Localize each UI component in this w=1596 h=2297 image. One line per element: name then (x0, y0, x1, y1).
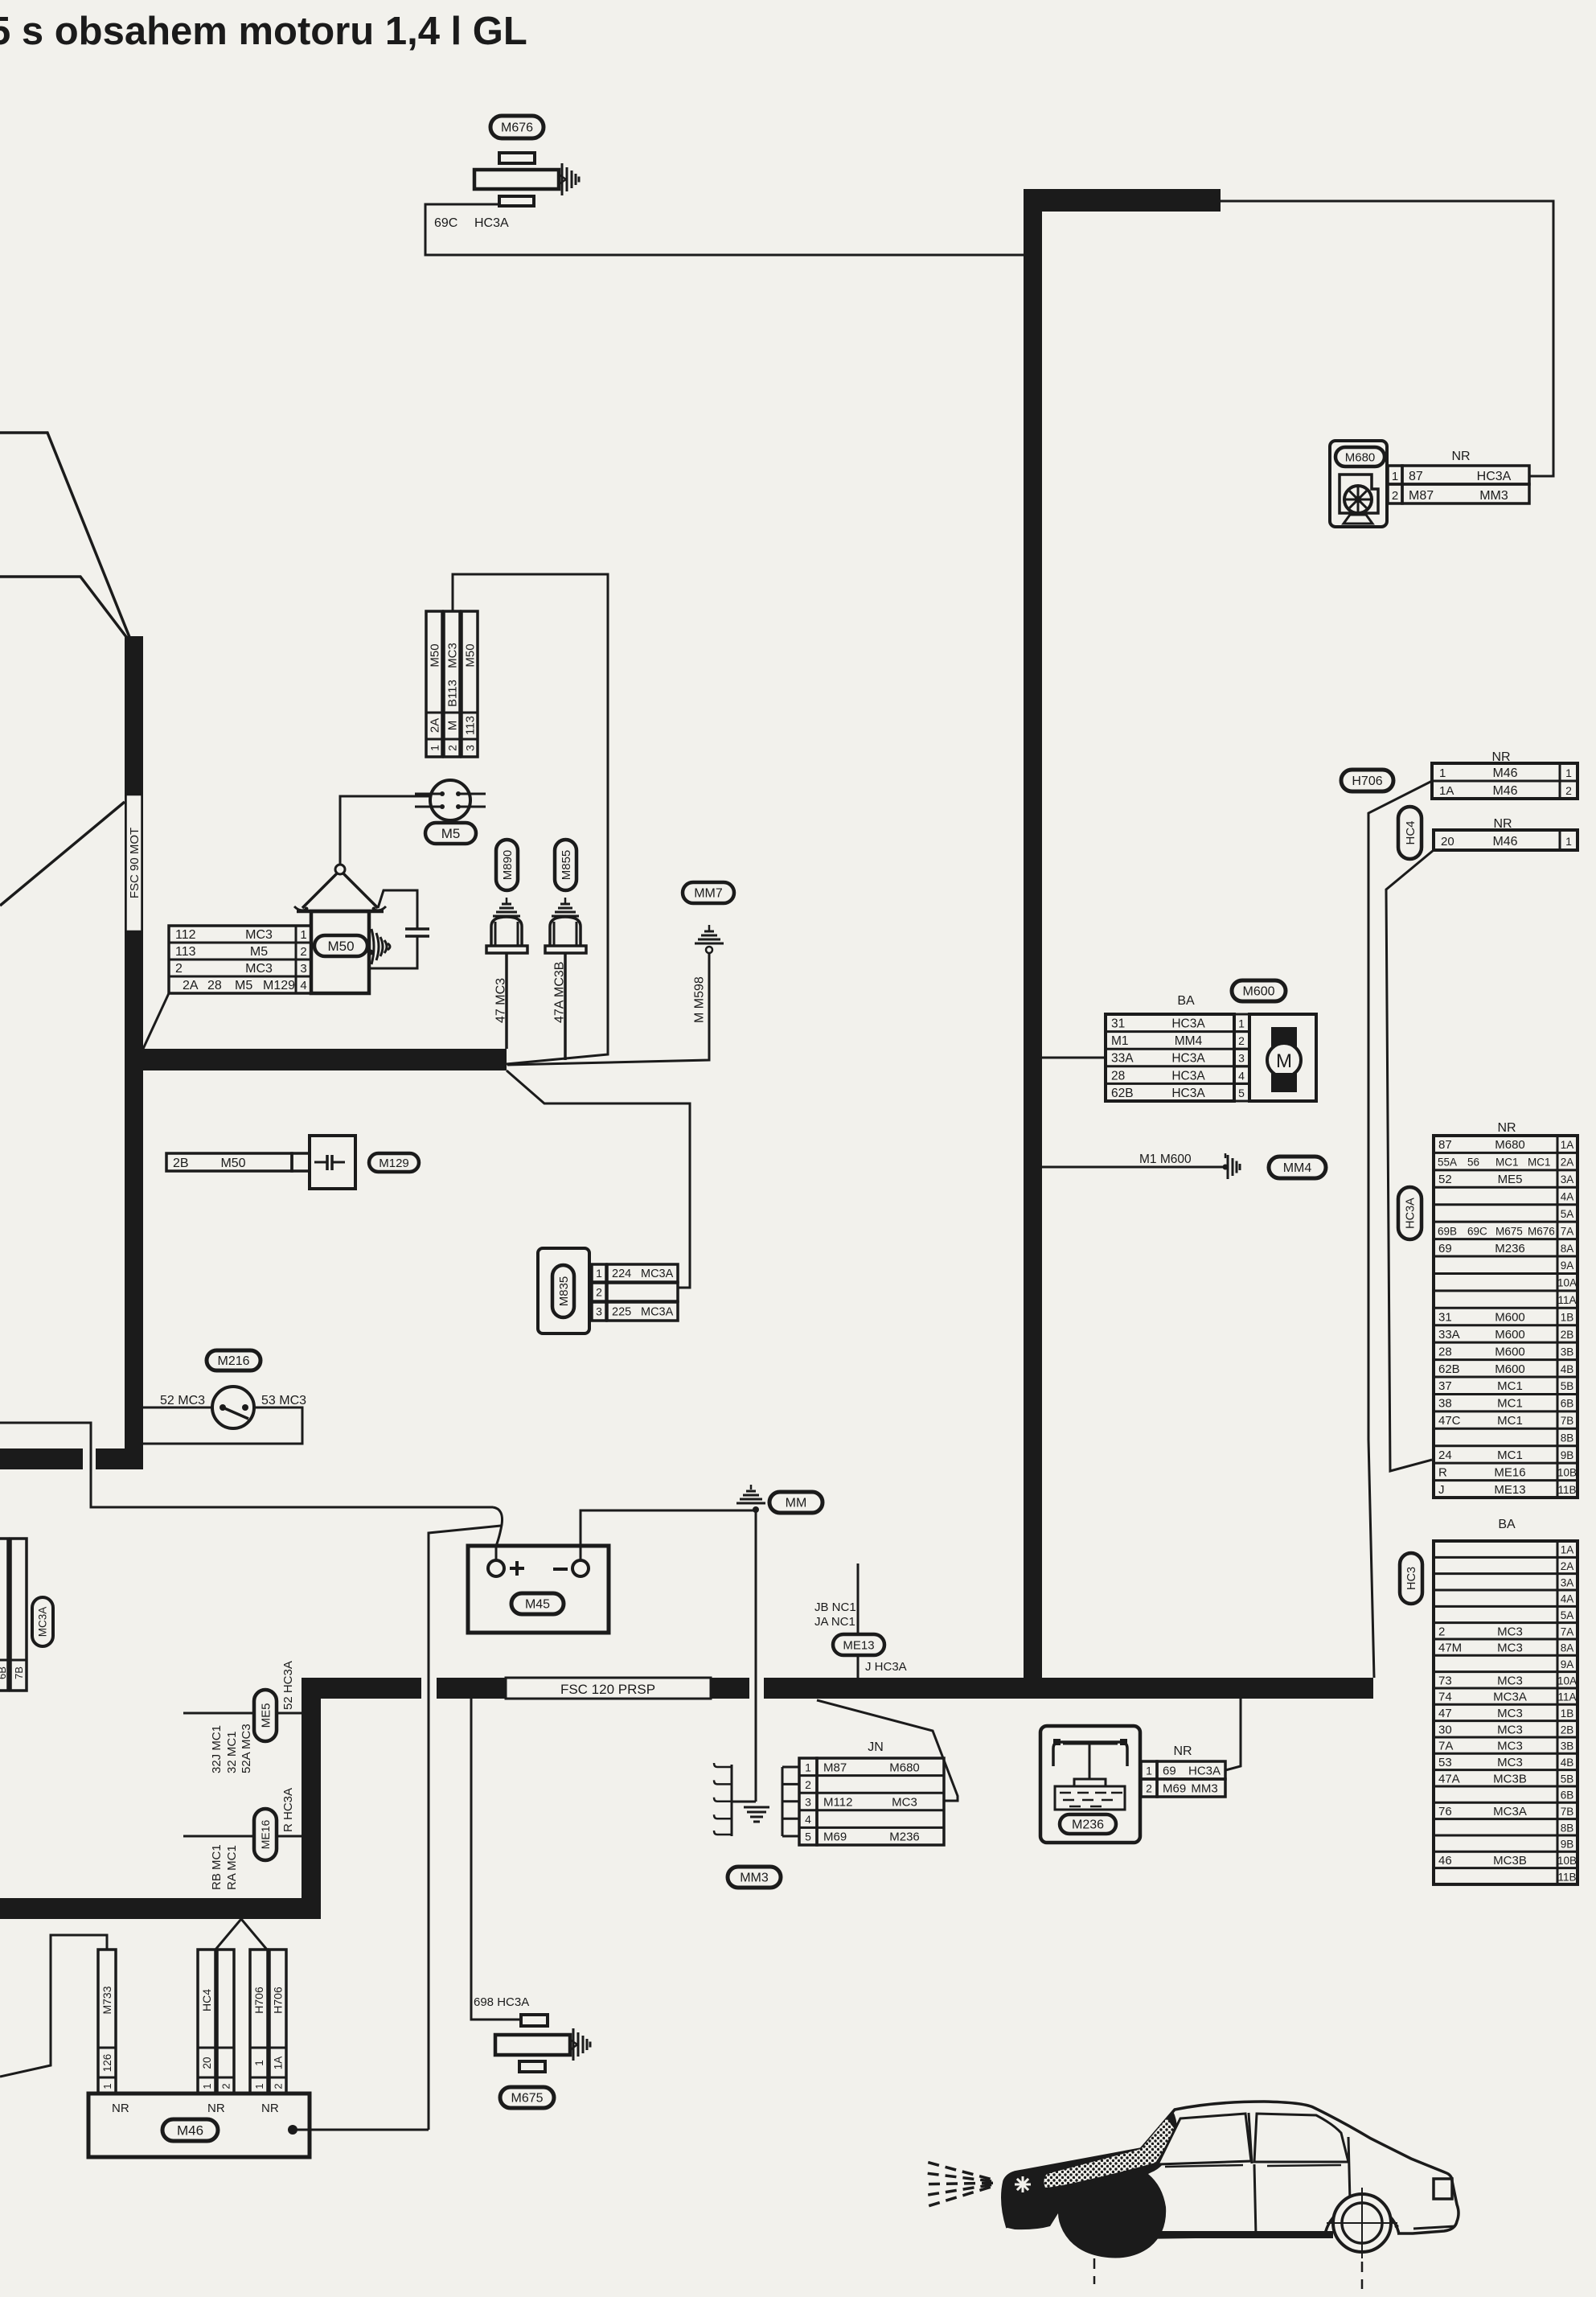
svg-text:M680: M680 (889, 1761, 920, 1774)
wire H706 down to bottom bus (1368, 781, 1432, 1678)
svg-text:1: 1 (1439, 766, 1446, 780)
svg-text:MC3: MC3 (1497, 1740, 1523, 1753)
svg-text:ME5: ME5 (1498, 1173, 1523, 1186)
svg-text:M835: M835 (557, 1276, 571, 1307)
svg-text:2: 2 (805, 1778, 811, 1791)
svg-text:M675: M675 (1495, 1225, 1523, 1237)
svg-text:1: 1 (805, 1761, 811, 1773)
connector ME13 (814, 1564, 907, 1678)
svg-text:MM3: MM3 (1191, 1782, 1217, 1796)
svg-text:10A: 10A (1557, 1277, 1577, 1289)
wire battery feed to M46 (429, 1526, 501, 2130)
svg-text:33A: 33A (1111, 1052, 1134, 1066)
svg-text:1A: 1A (273, 2057, 285, 2070)
svg-text:4: 4 (1238, 1069, 1245, 1082)
bus bar vertical ME5/ME16 (302, 1678, 321, 1919)
svg-text:8B: 8B (1561, 1822, 1574, 1834)
svg-text:2: 2 (220, 2083, 232, 2089)
svg-text:HC4: HC4 (200, 1989, 213, 2011)
svg-text:M46: M46 (1492, 766, 1517, 780)
svg-text:BA: BA (1177, 994, 1195, 1008)
svg-text:11B: 11B (1557, 1871, 1576, 1883)
svg-text:2B: 2B (1561, 1329, 1574, 1341)
svg-text:M1: M1 (1111, 1034, 1129, 1048)
wire loop from table to lower bus (453, 574, 608, 1064)
bus arm top right (1024, 189, 1221, 212)
wire M733 off-page (0, 1935, 107, 2077)
svg-text:2B: 2B (1561, 1724, 1574, 1736)
svg-text:R: R (1438, 1465, 1447, 1479)
ignition coil M50 (294, 865, 390, 993)
svg-text:6B: 6B (1561, 1398, 1574, 1410)
svg-text:2: 2 (596, 1286, 602, 1299)
svg-text:28: 28 (207, 979, 222, 992)
connector table HC3 BA (1400, 1518, 1578, 1884)
battery M45 (468, 1546, 609, 1633)
svg-text:BA: BA (1498, 1518, 1516, 1531)
svg-text:ME16: ME16 (1494, 1465, 1525, 1479)
svg-text:HC3A: HC3A (1171, 1017, 1205, 1031)
svg-text:M733: M733 (101, 1986, 113, 2014)
svg-text:FSC 120 PRSP: FSC 120 PRSP (560, 1682, 655, 1697)
wire M5 to coil (340, 796, 430, 865)
svg-text:1: 1 (1392, 470, 1398, 483)
svg-text:M5: M5 (235, 979, 252, 992)
svg-text:R HC3A: R HC3A (281, 1788, 295, 1832)
svg-text:4: 4 (300, 979, 306, 992)
svg-text:HC3A: HC3A (1171, 1087, 1205, 1100)
svg-text:10B: 10B (1557, 1855, 1577, 1867)
svg-text:73: 73 (1438, 1674, 1452, 1687)
wire off-page upper-left (0, 433, 131, 641)
svg-text:9B: 9B (1561, 1449, 1574, 1461)
svg-text:5: 5 (1238, 1087, 1245, 1099)
svg-text:5B: 5B (1561, 1773, 1574, 1785)
svg-text:NR: NR (1451, 450, 1470, 463)
starter M600 (1106, 980, 1316, 1101)
svg-text:112: 112 (175, 928, 196, 942)
svg-text:HC3: HC3 (1405, 1567, 1418, 1590)
svg-text:M600: M600 (1495, 1362, 1525, 1376)
svg-text:3: 3 (1238, 1052, 1245, 1065)
svg-text:1: 1 (101, 2083, 113, 2089)
svg-text:52 HC3A: 52 HC3A (281, 1661, 295, 1710)
svg-text:M5: M5 (441, 826, 461, 841)
connector strips HC4 (198, 1950, 234, 2094)
svg-text:1A: 1A (1439, 784, 1454, 798)
svg-text:1: 1 (201, 2083, 213, 2089)
svg-text:M50: M50 (220, 1157, 245, 1170)
svg-text:MM: MM (786, 1497, 807, 1510)
wire bus to M600 (1042, 1057, 1106, 1059)
svg-text:M675: M675 (511, 2092, 543, 2106)
svg-text:M600: M600 (1495, 1345, 1525, 1358)
svg-text:M50: M50 (327, 939, 354, 954)
svg-text:HC3A: HC3A (1405, 1198, 1418, 1229)
svg-text:M46: M46 (1492, 784, 1517, 798)
svg-text:9B: 9B (1561, 1839, 1574, 1851)
svg-text:126: 126 (101, 2054, 113, 2073)
wire bus to JN (817, 1700, 958, 1801)
svg-text:M87: M87 (823, 1761, 847, 1774)
svg-text:113: 113 (175, 945, 196, 959)
svg-text:3: 3 (805, 1796, 811, 1809)
svg-text:46: 46 (1438, 1854, 1452, 1868)
svg-text:2: 2 (446, 745, 459, 751)
connector M835 (538, 1248, 678, 1333)
svg-text:MC3B: MC3B (1493, 1854, 1527, 1868)
svg-text:HC3A: HC3A (1477, 470, 1512, 483)
connector H706 rows (1341, 750, 1578, 799)
svg-text:HC3A: HC3A (1171, 1069, 1205, 1083)
svg-text:87: 87 (1409, 470, 1423, 483)
svg-text:MM3: MM3 (740, 1872, 769, 1885)
svg-text:2: 2 (1392, 489, 1398, 503)
svg-text:MC3: MC3 (892, 1796, 917, 1810)
svg-text:32J MC1: 32J MC1 (210, 1725, 224, 1773)
svg-text:55A: 55A (1438, 1157, 1457, 1169)
svg-text:M50: M50 (429, 643, 442, 667)
svg-text:ME5: ME5 (259, 1703, 273, 1728)
svg-text:5B: 5B (1561, 1380, 1574, 1392)
svg-text:MC3: MC3 (1497, 1674, 1523, 1687)
spark plug M855 (545, 840, 586, 1060)
svg-text:M236: M236 (889, 1831, 920, 1844)
svg-text:6B: 6B (1561, 1790, 1574, 1802)
svg-text:3A: 3A (1561, 1576, 1574, 1588)
svg-text:MC3: MC3 (1497, 1625, 1523, 1638)
svg-text:NR: NR (112, 2102, 129, 2115)
svg-text:HC3A: HC3A (1188, 1765, 1221, 1778)
svg-text:MC3: MC3 (446, 643, 460, 668)
svg-text:2: 2 (273, 2083, 285, 2089)
svg-text:M890: M890 (501, 850, 515, 881)
svg-text:ME13: ME13 (843, 1638, 874, 1652)
svg-text:MC3B: MC3B (1493, 1772, 1527, 1785)
svg-text:2: 2 (300, 945, 306, 959)
distributor M5 (415, 780, 486, 844)
svg-text:NR: NR (207, 2102, 225, 2115)
svg-text:8B: 8B (1561, 1432, 1574, 1444)
svg-text:M5: M5 (250, 945, 268, 959)
svg-text:M M598: M M598 (693, 976, 707, 1023)
svg-text:224: 224 (612, 1268, 631, 1280)
svg-text:8A: 8A (1561, 1243, 1574, 1255)
svg-text:1: 1 (1565, 835, 1572, 848)
svg-text:MM4: MM4 (1175, 1034, 1203, 1048)
bus bar vertical right (1024, 189, 1042, 1699)
svg-text:M112: M112 (823, 1796, 852, 1810)
svg-text:7B: 7B (1561, 1415, 1574, 1427)
svg-text:5A: 5A (1561, 1609, 1574, 1621)
wire battery minus to ground MM (581, 1510, 756, 1560)
ground MM (736, 1485, 823, 1513)
wire table to bus (143, 993, 169, 1049)
svg-text:2: 2 (1438, 1625, 1445, 1638)
svg-text:11B: 11B (1557, 1484, 1576, 1496)
svg-text:1: 1 (429, 745, 441, 751)
svg-text:MM4: MM4 (1283, 1161, 1312, 1175)
svg-text:28: 28 (1438, 1345, 1452, 1358)
svg-text:M129: M129 (263, 979, 295, 992)
svg-text:2: 2 (1565, 784, 1572, 797)
relay box M46 (88, 2094, 429, 2157)
svg-text:H706: H706 (1352, 775, 1382, 788)
svg-text:2: 2 (175, 962, 183, 976)
svg-text:M: M (446, 721, 460, 731)
svg-text:20: 20 (1441, 835, 1454, 849)
connector strip M733 (98, 1950, 116, 2094)
svg-text:69: 69 (1438, 1242, 1452, 1255)
injector M676 (474, 116, 579, 206)
svg-text:4B: 4B (1561, 1363, 1574, 1375)
svg-text:M: M (1276, 1050, 1292, 1072)
svg-text:20: 20 (201, 2057, 213, 2069)
bus bottom far-left (0, 1898, 321, 1919)
svg-text:5 s obsahem motoru 1,4 l GL: 5 s obsahem motoru 1,4 l GL (0, 10, 527, 53)
bus horizontal mid (126, 1049, 507, 1070)
svg-text:MC1: MC1 (1497, 1414, 1523, 1428)
wire 698 HC3A to M675 (471, 1699, 529, 2020)
svg-text:M676: M676 (501, 121, 533, 135)
connector ME16 (183, 1788, 302, 1890)
svg-text:5: 5 (805, 1831, 811, 1843)
svg-text:MC3: MC3 (245, 928, 273, 942)
wire bus to M236 (1225, 1699, 1241, 1770)
svg-text:2A: 2A (1561, 1157, 1574, 1169)
svg-text:2: 2 (1146, 1782, 1152, 1795)
svg-text:52: 52 (1438, 1173, 1452, 1186)
svg-text:MC1: MC1 (1497, 1448, 1523, 1462)
svg-text:28: 28 (1111, 1069, 1125, 1083)
svg-text:1: 1 (596, 1267, 602, 1280)
svg-text:47: 47 (1438, 1707, 1452, 1720)
svg-text:3: 3 (596, 1305, 602, 1318)
connector table HC3A NR (1398, 1121, 1578, 1498)
wire MM down to MM3 ground (755, 1510, 757, 1802)
svg-text:M855: M855 (560, 850, 573, 881)
svg-text:M46: M46 (1492, 835, 1517, 849)
svg-text:7A: 7A (1561, 1625, 1574, 1637)
svg-text:MC1: MC1 (1497, 1379, 1523, 1393)
svg-text:2A: 2A (1561, 1560, 1574, 1572)
svg-text:NR: NR (1497, 1121, 1516, 1135)
svg-text:76: 76 (1438, 1805, 1452, 1818)
svg-text:H706: H706 (252, 1987, 265, 2014)
svg-text:8A: 8A (1561, 1642, 1574, 1654)
ground MM3 (728, 1802, 781, 1888)
wire 69C HC3A from M676 to right bus (425, 204, 1025, 255)
wire to fan M680 (1221, 201, 1553, 476)
svg-text:MC3: MC3 (1497, 1756, 1523, 1769)
svg-text:MC3: MC3 (1497, 1642, 1523, 1655)
svg-text:52A MC3: 52A MC3 (240, 1724, 253, 1773)
injector M675 (495, 2015, 590, 2108)
svg-text:3: 3 (464, 745, 477, 751)
svg-text:JA NC1: JA NC1 (814, 1615, 855, 1629)
svg-text:4A: 4A (1561, 1593, 1574, 1605)
svg-text:113: 113 (464, 716, 478, 735)
svg-text:HC4: HC4 (1404, 820, 1418, 844)
connector ME5 (183, 1661, 302, 1773)
svg-text:1B: 1B (1561, 1312, 1574, 1324)
title text (0, 10, 527, 53)
svg-text:1: 1 (1565, 766, 1572, 779)
svg-text:47M: 47M (1438, 1642, 1462, 1655)
svg-text:3A: 3A (1561, 1173, 1574, 1185)
svg-text:74: 74 (1438, 1691, 1452, 1704)
svg-text:MC3A: MC3A (641, 1268, 674, 1280)
svg-text:69: 69 (1163, 1765, 1176, 1778)
svg-text:HC3A: HC3A (1171, 1052, 1205, 1066)
connector JN (782, 1740, 944, 1845)
svg-text:3: 3 (300, 962, 306, 976)
wire off-page to FSC 90 MOT (0, 802, 125, 906)
svg-text:MM3: MM3 (1479, 489, 1508, 503)
svg-text:M600: M600 (1495, 1328, 1525, 1342)
svg-text:MC3A: MC3A (37, 1607, 49, 1637)
svg-text:69B: 69B (1438, 1225, 1457, 1237)
svg-text:11A: 11A (1557, 1691, 1576, 1703)
svg-text:MC3: MC3 (1497, 1723, 1523, 1736)
svg-text:MM7: MM7 (694, 887, 723, 901)
svg-text:31: 31 (1111, 1017, 1125, 1031)
svg-text:ME16: ME16 (259, 1820, 272, 1850)
svg-text:2B: 2B (173, 1157, 189, 1170)
svg-text:69C: 69C (434, 216, 457, 230)
wire off-page mid-left (0, 577, 132, 644)
svg-text:HC3A: HC3A (474, 216, 509, 230)
svg-text:69C: 69C (1467, 1225, 1487, 1237)
svg-text:47C: 47C (1438, 1414, 1461, 1428)
svg-text:MC1: MC1 (1495, 1157, 1519, 1169)
connector strips H706 (250, 1950, 286, 2094)
svg-text:62B: 62B (1111, 1087, 1134, 1100)
svg-text:M45: M45 (525, 1598, 550, 1612)
svg-text:M129: M129 (379, 1157, 409, 1170)
svg-text:7A: 7A (1561, 1225, 1574, 1237)
svg-text:10A: 10A (1557, 1674, 1577, 1687)
svg-text:JN: JN (868, 1740, 884, 1754)
svg-text:38: 38 (1438, 1397, 1452, 1411)
wires V from bus to strips (215, 1919, 267, 1950)
svg-text:10B: 10B (1557, 1466, 1577, 1478)
svg-text:M1 M600: M1 M600 (1139, 1153, 1192, 1166)
svg-text:1: 1 (1146, 1765, 1152, 1777)
svg-text:24: 24 (1438, 1448, 1452, 1462)
svg-text:53 MC3: 53 MC3 (261, 1394, 306, 1407)
svg-text:1A: 1A (1561, 1544, 1574, 1556)
svg-text:11A: 11A (1557, 1294, 1576, 1306)
svg-text:NR: NR (261, 2102, 279, 2115)
svg-text:M69: M69 (823, 1831, 847, 1844)
svg-text:M69: M69 (1163, 1782, 1186, 1796)
wire battery plus to left (0, 1423, 503, 1560)
svg-text:1B: 1B (1561, 1707, 1574, 1720)
svg-text:9A: 9A (1561, 1259, 1574, 1272)
svg-text:4B: 4B (1561, 1757, 1574, 1769)
ground MM4 M1 M600 (1042, 1153, 1326, 1179)
switch M216 (143, 1350, 306, 1444)
wire HC4 down to HC3A table (1386, 850, 1434, 1471)
capacitor M129 (166, 1136, 419, 1189)
svg-text:31: 31 (1438, 1311, 1452, 1325)
svg-text:M680: M680 (1345, 450, 1376, 464)
bus bar vertical left FSC 90 MOT (125, 636, 143, 1469)
svg-text:MC3A: MC3A (1493, 1691, 1527, 1704)
svg-text:MC3: MC3 (1497, 1707, 1523, 1720)
comb connector of JN (714, 1763, 732, 1836)
fuel sender M236 (1040, 1726, 1225, 1843)
connector HC4 row (1398, 807, 1578, 859)
svg-text:1: 1 (300, 928, 306, 942)
svg-text:9A: 9A (1561, 1658, 1574, 1670)
svg-text:62B: 62B (1438, 1362, 1460, 1376)
svg-text:30: 30 (1438, 1723, 1452, 1736)
svg-text:M216: M216 (217, 1354, 249, 1368)
svg-text:M236: M236 (1072, 1818, 1104, 1832)
svg-text:M46: M46 (177, 2122, 203, 2138)
svg-text:37: 37 (1438, 1379, 1452, 1393)
svg-text:3B: 3B (1561, 1740, 1574, 1753)
wire bus to M835 (507, 1070, 690, 1288)
svg-text:M600: M600 (1495, 1311, 1525, 1325)
svg-text:5A: 5A (1561, 1208, 1574, 1220)
ground MM7 M598 (507, 882, 734, 1065)
svg-text:2A: 2A (429, 718, 442, 733)
fan M680 (1330, 441, 1529, 527)
svg-text:7B: 7B (1561, 1806, 1574, 1818)
svg-text:32 MC1: 32 MC1 (225, 1731, 239, 1773)
svg-text:NR: NR (1173, 1744, 1192, 1758)
svg-text:56: 56 (1467, 1157, 1479, 1169)
svg-text:B113: B113 (446, 680, 460, 707)
svg-text:MC3A: MC3A (1493, 1805, 1527, 1818)
spark plug M890 (486, 840, 527, 1049)
bus bottom FSC 120 PRSP (302, 1678, 1373, 1699)
svg-text:ME13: ME13 (1494, 1483, 1525, 1497)
svg-text:M87: M87 (1409, 489, 1434, 503)
svg-text:2A: 2A (183, 979, 199, 992)
svg-text:H706: H706 (272, 1987, 285, 2014)
svg-text:M680: M680 (1495, 1138, 1525, 1152)
svg-text:7A: 7A (1438, 1740, 1453, 1753)
connector table 1-2A-M50 / 2-M-B113-MC3 / 3-113-M50 (426, 611, 478, 757)
car illustration (928, 2102, 1459, 2289)
svg-text:2: 2 (1238, 1034, 1245, 1047)
svg-text:4: 4 (805, 1813, 811, 1826)
svg-text:47A: 47A (1438, 1772, 1460, 1785)
svg-text:RA MC1: RA MC1 (225, 1845, 239, 1890)
capacitor of coil (371, 890, 429, 968)
svg-text:MC3A: MC3A (641, 1306, 674, 1319)
svg-text:87: 87 (1438, 1138, 1452, 1152)
svg-text:53: 53 (1438, 1756, 1452, 1769)
svg-text:RB MC1: RB MC1 (210, 1844, 224, 1890)
svg-text:1: 1 (253, 2060, 265, 2066)
svg-text:7B: 7B (13, 1666, 25, 1679)
svg-text:FSC 90 MOT: FSC 90 MOT (128, 828, 142, 898)
connector table M50 (4 rows) (169, 926, 311, 993)
svg-text:33A: 33A (1438, 1328, 1460, 1342)
svg-text:M600: M600 (1242, 985, 1274, 999)
svg-text:MC1: MC1 (1497, 1397, 1523, 1411)
svg-text:MC1: MC1 (1528, 1157, 1551, 1169)
connector table left edge (cut) (0, 1539, 53, 1691)
svg-text:M676: M676 (1528, 1225, 1555, 1237)
svg-text:1: 1 (253, 2083, 265, 2089)
svg-text:J: J (1438, 1483, 1445, 1497)
